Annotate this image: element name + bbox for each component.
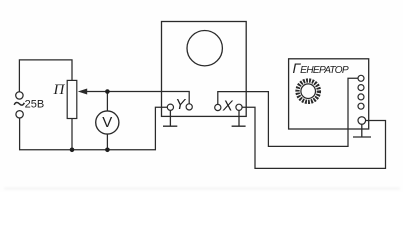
ground Y input (163, 110, 177, 126)
svg-text:X: X (222, 97, 234, 114)
generator output terminal (358, 117, 366, 125)
wire voltmeter stems (106, 92, 108, 150)
terminal Y left (167, 104, 173, 110)
wire source bottom along bus up to Y-left terminal (20, 107, 168, 150)
tilde of ~25V label (14, 102, 24, 105)
terminal X left (215, 104, 221, 110)
svg-text:V: V (102, 114, 112, 131)
svg-text:П: П (53, 82, 66, 98)
wire wiper to voltmeter junction to Y-right terminal (87, 92, 190, 104)
generator terminal 3 (358, 94, 364, 100)
wire X-left net: X input to generator terminal 1 (218, 78, 358, 146)
junction wiper/voltmeter (105, 89, 110, 94)
generator knob (298, 81, 319, 102)
terminal X right (236, 104, 242, 110)
junction voltmeter/bus (105, 148, 110, 153)
ground generator (353, 124, 371, 137)
svg-text:25В: 25В (25, 99, 45, 111)
terminal Y right (186, 104, 192, 110)
oscilloscope box (162, 22, 247, 117)
voltmeter V1 (96, 111, 119, 134)
generator terminal 2 (358, 85, 364, 91)
wire potentiometer bottom to bus (71, 119, 73, 150)
ac source terminal top (16, 92, 23, 99)
generator terminal 1 (358, 75, 364, 81)
generator box (289, 59, 369, 129)
generator terminal 4 (358, 103, 364, 109)
potentiometer P rect (67, 80, 77, 118)
junction pot/bus (70, 148, 75, 153)
wire X-right net: X input to generator output terminal (242, 107, 385, 168)
potentiometer wiper arrowhead (78, 89, 87, 95)
wire source top to potentiometer top (19, 60, 72, 92)
ground X input (232, 110, 246, 126)
svg-text:Y: Y (175, 96, 186, 113)
scan smudge bottom (4, 188, 400, 189)
ac source terminal bottom (16, 111, 23, 118)
oscilloscope screen (187, 31, 222, 66)
